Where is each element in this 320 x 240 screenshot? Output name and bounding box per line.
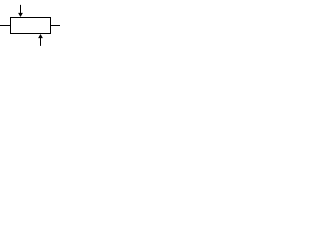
arrow shaft into top edge xyxy=(20,5,22,13)
wire right lead xyxy=(51,25,61,27)
wire left lead xyxy=(0,25,11,27)
arrowhead pointing down onto box top edge xyxy=(18,13,23,17)
arrow shaft into bottom edge xyxy=(40,38,42,46)
arrowhead pointing up onto box bottom edge xyxy=(38,34,43,38)
resistor body (box symbol) xyxy=(11,18,51,34)
